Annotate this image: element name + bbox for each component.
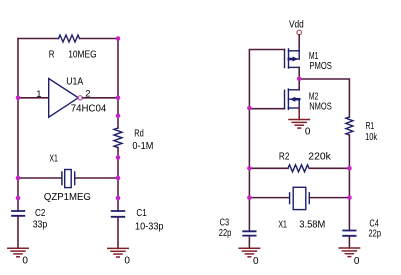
ground (left, 0) [8,248,28,257]
node R2 left [247,166,252,171]
wire: right rail upper [117,39,119,129]
svg-text:PMOS: PMOS [309,61,332,72]
ground (M2, 0) [289,120,309,129]
crystal X1 right plate [308,193,310,204]
node C1 top [116,196,121,201]
ground (C4, 0) [339,248,359,257]
wire: crystal row right [75,177,118,179]
wire: R2 row right lead [310,167,349,169]
wire: C4 to ground [348,236,350,248]
capacitor C2 plates [12,211,24,216]
wire: C4 rail [348,198,350,231]
ground (C1, 0) [108,248,128,257]
crystal X1 body box [293,187,306,209]
svg-text:R2: R2 [279,151,290,162]
node input junction [16,96,21,101]
svg-text:0: 0 [22,256,28,267]
svg-text:U1A: U1A [66,76,83,87]
resistor Rd zigzag [114,128,122,148]
svg-text:0: 0 [305,127,311,138]
crystal X1 body [65,170,72,188]
svg-text:74HC04: 74HC04 [71,103,107,114]
crystal X1 right plate [74,172,76,185]
node Rd bottom [116,155,121,160]
node crystal left [16,176,21,181]
ground (C3, 0) [239,248,259,257]
wire: crystal row left [18,177,61,179]
wire: top feedback, left lead of R [18,38,59,40]
svg-text:NMOS: NMOS [309,101,332,112]
node crystal left [247,195,252,200]
svg-text:X1: X1 [49,153,58,164]
op-amp U1A inverter triangle [49,79,79,118]
svg-text:0: 0 [354,256,360,267]
node R2 right / R1 bottom [347,166,352,171]
svg-text:R: R [49,49,55,60]
node top-right corner [116,36,121,41]
svg-text:3.58M: 3.58M [299,219,325,230]
resistor R2 zigzag [288,165,309,172]
node gate junction [247,106,252,111]
crystal X1 left plate [61,172,63,185]
wire: right rail lower [117,148,119,211]
node crystal right [116,176,121,181]
svg-text:22p: 22p [369,228,382,239]
M2 arrow (points left) [295,98,299,101]
wire: M1 source to mid node [298,67,300,79]
wire: C2 to ground [17,216,19,248]
capacitor C4 plates [343,231,355,236]
svg-text:QZP1MEG: QZP1MEG [44,192,91,203]
svg-text:X1: X1 [278,219,287,230]
node output junction [116,96,121,101]
wire: C3 rail [248,198,250,232]
inverter output bubble [78,96,82,100]
svg-text:10k: 10k [365,132,378,143]
capacitor C3 plates [243,231,255,235]
transistor M2 NMOS [285,89,300,109]
svg-text:0-1M: 0-1M [132,141,153,152]
Vdd terminal circle [297,30,302,35]
wire: R1 bottom [348,135,350,198]
svg-text:Rd: Rd [134,128,144,139]
resistor R1 zigzag [346,117,353,135]
wire: mid node to R1 top [299,79,349,117]
wire: M2 source to ground [298,108,300,120]
svg-text:C3: C3 [220,217,230,228]
junction dots left circuit [16,36,121,200]
node Rd top [116,114,121,119]
capacitor C1 plates [112,211,125,217]
svg-text:10-33p: 10-33p [135,222,164,233]
M1 arrow (points right) [289,58,293,61]
wire: Vdd to M1 drain [298,35,300,51]
svg-text:10MEG: 10MEG [68,49,97,60]
wire: inverter output [83,97,118,99]
svg-text:220k: 220k [308,151,332,162]
node M1/M2 mid [297,77,302,82]
wire: gate loop [249,50,284,109]
svg-text:C2: C2 [35,208,46,219]
svg-text:22p: 22p [219,228,232,239]
crystal X1 left plate [289,193,291,204]
transistor M1 PMOS [285,49,300,68]
resistor R zigzag [59,35,80,42]
wire: right lead of R to top-right corner [80,38,119,40]
wire: inverter input [18,97,49,99]
svg-text:1: 1 [36,89,41,100]
svg-text:2: 2 [85,89,90,100]
wire: crystal row right [310,197,350,199]
svg-text:Vdd: Vdd [289,19,304,30]
wire: mid node down to M2 drain [298,79,300,90]
svg-text:C1: C1 [136,208,147,219]
svg-text:33p: 33p [33,219,48,230]
svg-text:0: 0 [253,256,259,267]
wire: left rail [17,39,19,212]
wire: C3 to ground [248,236,250,249]
wire: left rail of RC network [248,109,250,198]
node C2 top [16,196,21,201]
svg-text:R1: R1 [366,121,375,132]
svg-text:0: 0 [124,256,130,267]
wire: crystal row left [249,197,289,199]
node crystal right [347,195,352,200]
junction dots right circuit [247,77,352,200]
wire: R2 row left lead [249,167,288,169]
wire: C1 to ground [117,217,119,249]
